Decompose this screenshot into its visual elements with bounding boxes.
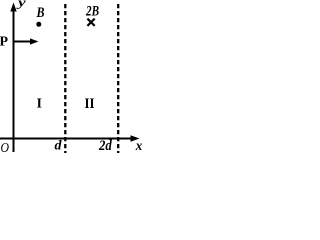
wire dashed boundary at x=d [64, 4, 66, 153]
svg-text:y: y [16, 0, 26, 10]
svg-text:2d: 2d [98, 138, 112, 154]
wire x-axis [0, 138, 133, 140]
svg-text:I: I [37, 97, 42, 112]
node 2B field cross (into page) [87, 19, 94, 26]
node B field dot (out of page) [36, 22, 41, 27]
wire y-axis [13, 9, 15, 152]
svg-text:O: O [1, 141, 10, 156]
svg-text:d: d [55, 139, 63, 154]
svg-text:2B: 2B [85, 4, 99, 20]
wire x-axis arrowhead [131, 135, 140, 141]
wire dashed boundary at x=2d [117, 4, 119, 153]
wire velocity arrow at P [14, 41, 33, 43]
svg-text:x: x [135, 139, 142, 154]
svg-text:II: II [85, 96, 95, 112]
wire y-axis arrowhead [10, 3, 16, 12]
svg-text:B: B [36, 5, 45, 21]
svg-text:P: P [0, 35, 8, 50]
